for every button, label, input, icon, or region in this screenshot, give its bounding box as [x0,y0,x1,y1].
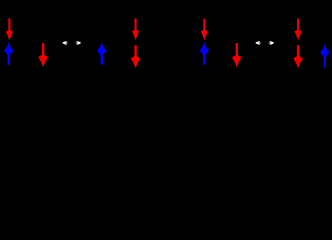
spin-down arrow (red, upper level, site 1 right config of right diagram) [295,18,302,40]
spin-down arrow (red, upper level, site 2 right config of left diagram) [132,18,139,40]
left half of exchange double-arrow (right diagram) [255,41,260,45]
right half of exchange double-arrow (right diagram) [270,41,275,45]
spin-down arrow (red, lower level, site 2 left config) [38,43,48,67]
spin-up arrow (blue, lower level, site 1 left config) [4,42,13,65]
spin-down arrow (red, upper level, site 1 left config) [6,18,13,40]
spin-up arrow (blue, lower level, site 2 right config of right diagram) [320,44,329,68]
spin-down arrow (red, lower level, site 1 right config of right diagram) [293,45,303,68]
spin-up arrow (blue, lower level, site 1 right config of left diagram) [97,42,106,65]
spin-down arrow (red, lower level, site 2 of right diagram) [232,43,242,67]
spin-down arrow (red, lower level, site 2 right config of left diagram) [131,45,141,68]
right half of exchange double-arrow (left diagram) [77,41,82,45]
spin-up arrow (blue, lower level, site 1 of right diagram) [200,42,209,65]
spin-down arrow (red, upper level, site 1 of right diagram) [201,19,208,41]
left half of exchange double-arrow (left diagram) [62,41,67,45]
